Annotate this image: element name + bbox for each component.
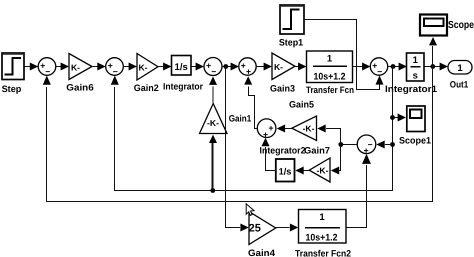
- scope block Scope: [420, 15, 447, 36]
- wire Integrator to Sum2b: [191, 66, 203, 68]
- sum junction Sum2c: [239, 58, 256, 75]
- node junction A0 on Integrator1 output: [430, 64, 435, 69]
- svg-text:K-: K-: [138, 62, 147, 72]
- node junction B0 on Integrator1 input: [391, 64, 396, 69]
- svg-text:Scope1: Scope1: [399, 135, 431, 145]
- wire to Sum4 right input: [385, 144, 393, 146]
- wire Sum3 to Integrator1: [388, 66, 406, 68]
- svg-text:+: +: [268, 123, 273, 133]
- sum junction Sum5: [257, 119, 276, 138]
- gain Gain3: [272, 53, 295, 80]
- svg-text:Step1: Step1: [279, 37, 303, 47]
- wire feedback B trunk: [115, 67, 393, 191]
- wire Gain2 to Integrator: [158, 66, 171, 68]
- transfer function block Transfer Fcn2: [299, 210, 347, 244]
- svg-text:−: −: [113, 67, 118, 77]
- transfer function block Transfer Fcn: [307, 51, 353, 83]
- gain Gain6: [69, 54, 92, 80]
- wire Gain7 to Integrator2: [304, 170, 310, 172]
- svg-text:Integrator2: Integrator2: [260, 145, 306, 155]
- svg-text:−: −: [211, 67, 216, 77]
- svg-text:1: 1: [413, 55, 419, 66]
- svg-text:−: −: [45, 67, 50, 77]
- node junction B3 to Gain1: [210, 188, 215, 193]
- svg-text:Gain3: Gain3: [270, 84, 295, 94]
- node junction B1 to Scope1: [390, 115, 395, 120]
- svg-text:Gain1: Gain1: [229, 114, 252, 124]
- sum junction Sum3: [370, 58, 387, 75]
- svg-text:1/s: 1/s: [175, 62, 188, 73]
- wire Step to Sum1: [24, 66, 38, 68]
- gain Gain1 (pointing up): [200, 104, 228, 134]
- svg-text:1/s: 1/s: [279, 166, 292, 176]
- gain Gain7 (pointing left): [309, 158, 330, 182]
- gain Gain4: [249, 212, 276, 245]
- wire Sum1 to Gain6: [56, 66, 68, 68]
- sum junction Sum1: [38, 58, 56, 76]
- svg-text:−: −: [377, 67, 382, 77]
- svg-text:Scope: Scope: [448, 20, 474, 31]
- svg-text:Transfer Fcn: Transfer Fcn: [306, 85, 354, 95]
- wire branch to Gain5: [326, 129, 341, 145]
- sum junction Sum2b: [204, 58, 222, 76]
- wire Gain6 to Sum2: [92, 66, 105, 68]
- wire Sum2 to Gain2: [123, 66, 136, 68]
- wire TF2 to Sum4 bottom: [346, 165, 367, 228]
- wire Sum4 output to branch junction: [341, 144, 358, 146]
- wire junction B3 up to Gain1: [212, 143, 214, 191]
- wire Gain3 to Transfer Fcn: [295, 66, 306, 68]
- wire Transfer Fcn to Sum3: [353, 66, 370, 68]
- wire to Scope: [432, 46, 434, 67]
- wire Gain1 to Sum2b bottom: [212, 87, 214, 104]
- node junction C1: [338, 142, 343, 147]
- wire Sum2c to Gain3: [256, 66, 271, 68]
- sum junction Sum4: [357, 135, 376, 154]
- svg-text:Gain7: Gain7: [304, 145, 330, 155]
- scope block Scope1: [407, 106, 425, 132]
- svg-text:10s+1.2: 10s+1.2: [314, 72, 346, 83]
- svg-text:Out1: Out1: [450, 80, 468, 90]
- svg-text:Gain5: Gain5: [289, 99, 314, 109]
- output port Out1: [448, 61, 472, 75]
- svg-text:Gain6: Gain6: [66, 83, 93, 93]
- node junction on Sum2b output: [223, 64, 228, 69]
- wire Sum2b to Sum2c: [222, 66, 238, 68]
- wire Integrator1 to Out1: [424, 66, 447, 68]
- wire Step1 to Sum3 bottom: [304, 20, 380, 90]
- source block Step1: [280, 5, 304, 34]
- svg-text:+: +: [364, 145, 369, 155]
- svg-text:25: 25: [249, 223, 261, 235]
- svg-text:K-: K-: [71, 62, 80, 72]
- wire branch to Gain7: [339, 145, 341, 171]
- svg-text:10s+1.2: 10s+1.2: [306, 233, 338, 244]
- wire feedback A from Integrator1 output to Sum1: [47, 67, 433, 202]
- svg-text:s: s: [413, 71, 418, 82]
- svg-text:-K-: -K-: [317, 166, 329, 176]
- wire C from Sum2b output junction down to Gain4: [226, 67, 241, 228]
- svg-text:Gain2: Gain2: [134, 83, 159, 93]
- svg-text:1: 1: [457, 63, 463, 74]
- wire to Scope1: [393, 117, 398, 119]
- mouse cursor pointer: [246, 204, 254, 216]
- integrator block Integrator2 (1/s): [276, 159, 295, 182]
- svg-text:Integrator: Integrator: [163, 81, 203, 91]
- svg-text:Gain4: Gain4: [248, 248, 276, 257]
- gain Gain2: [137, 54, 158, 81]
- sum junction Sum2: [106, 58, 124, 76]
- integrator block Integrator (1/s): [172, 56, 192, 76]
- svg-text:Transfer Fcn2: Transfer Fcn2: [295, 249, 351, 257]
- wire Gain5 to Sum5: [285, 128, 292, 130]
- svg-text:-K-: -K-: [207, 118, 219, 128]
- integrator block Integrator1 (1/s vertical): [407, 53, 425, 81]
- svg-text:+: +: [246, 67, 251, 77]
- wire Sum5 output to Sum2c bottom: [249, 87, 258, 129]
- svg-text:-K-: -K-: [303, 124, 315, 134]
- svg-text:Step: Step: [2, 84, 22, 94]
- wire Gain4 to Transfer Fcn2: [276, 227, 290, 229]
- wire Integrator2 to Sum5 bottom: [266, 147, 276, 171]
- source block Step: [2, 53, 24, 80]
- node junction B2 to Sum4: [390, 142, 395, 147]
- gain Gain5 (pointing left): [292, 116, 317, 141]
- svg-text:1: 1: [319, 212, 325, 223]
- svg-text:1: 1: [327, 54, 333, 65]
- svg-text:K-: K-: [274, 62, 283, 72]
